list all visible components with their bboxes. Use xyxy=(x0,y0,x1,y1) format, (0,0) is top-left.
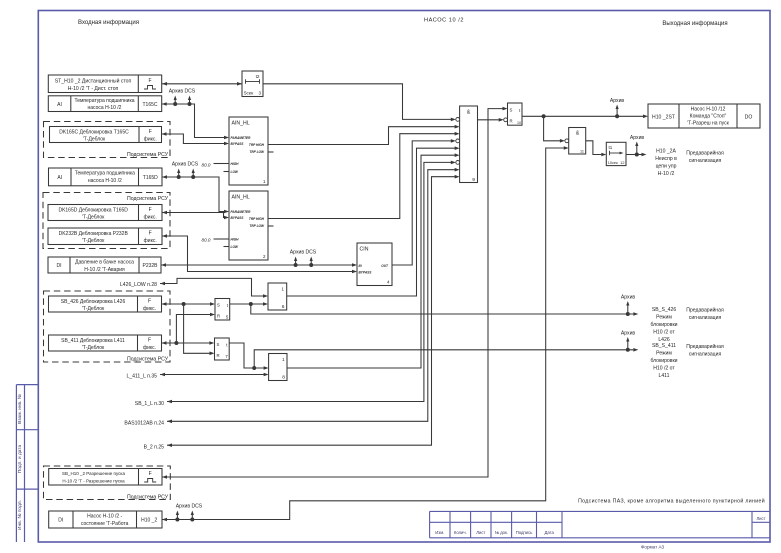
svg-text:80.0: 80.0 xyxy=(202,238,211,243)
svg-text:AIN_HL: AIN_HL xyxy=(232,121,250,127)
svg-text:SB_426 Деблокировка L426: SB_426 Деблокировка L426 xyxy=(61,299,126,305)
svg-text:сигнализация: сигнализация xyxy=(689,315,722,321)
svg-text:T165C: T165C xyxy=(142,102,157,108)
function block CIN 4 xyxy=(357,243,392,286)
output text Предаварийная сигнализация (SB_S_426) xyxy=(686,307,724,322)
svg-text:Неиспр в: Неиспр в xyxy=(655,156,677,162)
svg-text:S: S xyxy=(510,107,513,112)
wire DK165C to AIN_HL1 BYPASS xyxy=(162,132,230,145)
RS trigger block 10 xyxy=(508,103,523,125)
svg-text:F: F xyxy=(148,338,151,344)
svg-text:блокировки: блокировки xyxy=(650,322,677,328)
svg-text:Лист: Лист xyxy=(756,516,765,521)
OR gate block 6 xyxy=(268,283,287,310)
AND gate block 9 xyxy=(460,106,478,183)
svg-text:IN: IN xyxy=(359,264,363,268)
title block labels xyxy=(435,516,765,535)
label Архив DCS (H10_2) xyxy=(176,504,203,510)
svg-text:Команда "Стоп": Команда "Стоп" xyxy=(690,114,727,120)
wire ST_H10_2 output to timer 3 xyxy=(162,82,242,86)
svg-text:Н10 /2 от: Н10 /2 от xyxy=(653,365,675,371)
input block SB_411 (деблокировка L411) xyxy=(49,335,162,351)
svg-text:BAS1012AB п.24: BAS1012AB п.24 xyxy=(124,421,164,427)
svg-text:PARAMETER: PARAMETER xyxy=(231,136,252,140)
svg-text:Режим: Режим xyxy=(656,314,672,320)
svg-text:'Т-Деблок: 'Т-Деблок xyxy=(82,215,105,221)
svg-text:R: R xyxy=(217,353,220,358)
svg-text:DO: DO xyxy=(745,114,753,120)
svg-text:4: 4 xyxy=(387,280,390,285)
node SB_1_L п.30 xyxy=(135,161,460,407)
RS trigger block 5 xyxy=(215,299,230,321)
svg-text:11: 11 xyxy=(580,149,584,153)
svg-text:F: F xyxy=(148,78,151,84)
svg-text:Насос Н-10 /12: Насос Н-10 /12 xyxy=(691,107,726,113)
svg-text:DK165C Деблокировка T165C: DK165C Деблокировка T165C xyxy=(59,129,129,135)
wire T165C to AIN_HL1 PARAMETER xyxy=(162,96,229,140)
svg-text:Режим: Режим xyxy=(656,350,672,356)
svg-text:Подсистема РСУ: Подсистема РСУ xyxy=(127,494,169,500)
svg-text:HIGH: HIGH xyxy=(231,162,240,166)
svg-text:Колич.: Колич. xyxy=(454,530,467,535)
svg-text:1: 1 xyxy=(263,179,266,184)
svg-text:8: 8 xyxy=(282,375,285,381)
svg-text:сигнализация: сигнализация xyxy=(689,158,722,164)
wire SB_411 to RS7 S and RS5 R xyxy=(162,313,216,345)
svg-text:PARAMETER: PARAMETER xyxy=(231,210,252,214)
node L_411_L п.35 xyxy=(126,373,268,380)
label Архив DCS (P232B) xyxy=(290,250,317,256)
svg-text:BYPASS: BYPASS xyxy=(359,271,373,275)
svg-text:TRP HIGH: TRP HIGH xyxy=(249,217,265,221)
wire H10_2 to AND11 input 2 xyxy=(162,146,569,521)
output text SB_S_426 режим блокировки xyxy=(650,307,677,343)
svg-text:F: F xyxy=(149,231,152,237)
header Выходная информация xyxy=(662,21,727,27)
svg-text:BYPASS: BYPASS xyxy=(231,142,245,146)
svg-text:фикс.: фикс. xyxy=(144,137,157,143)
svg-text:SB_Н10 _2 Разрешение пуска: SB_Н10 _2 Разрешение пуска xyxy=(62,471,125,476)
svg-text:SB_S_411: SB_S_411 xyxy=(652,343,676,349)
wire RS7 output to OR8 and SB_S_411 line xyxy=(229,337,638,370)
svg-text:9: 9 xyxy=(472,177,475,183)
svg-text:Архив DCS: Архив DCS xyxy=(176,504,203,510)
svg-text:t: t xyxy=(519,108,521,113)
setpoint 80.0 into AIN_HL2 HIGH xyxy=(202,238,229,243)
dashed box Подсистема РСУ around DK165D and DK232B xyxy=(43,193,170,249)
left strip label Подп. и дата xyxy=(17,445,23,474)
output text H10_2A неисправность xyxy=(655,149,677,178)
svg-text:L411: L411 xyxy=(659,373,670,379)
svg-text:Температура подшипника: Температура подшипника xyxy=(74,98,134,104)
note Подсистема ПАЗ xyxy=(578,498,765,505)
svg-text:Инв. № подл.: Инв. № подл. xyxy=(17,500,23,530)
svg-text:Н-10 /2 'Т - Дист. стоп: Н-10 /2 'Т - Дист. стоп xyxy=(68,86,119,92)
svg-text:&: & xyxy=(467,110,471,116)
svg-text:SB_1_L п.30: SB_1_L п.30 xyxy=(135,401,164,407)
svg-text:BYPASS: BYPASS xyxy=(231,216,245,220)
svg-text:Архив: Архив xyxy=(621,295,636,301)
wire RS5 output to OR6 and SB_S_426 line xyxy=(230,301,639,316)
svg-text:F: F xyxy=(149,129,152,135)
input block DK165C (деблокировка T165C) xyxy=(50,127,162,143)
svg-text:Подсистема ПАЗ, кроме алгоритм: Подсистема ПАЗ, кроме алгоритма выделенн… xyxy=(578,498,765,505)
svg-text:LOW: LOW xyxy=(231,245,239,249)
svg-text:DI: DI xyxy=(57,263,62,269)
wire T165D to AIN_HL2 PARAMETER xyxy=(162,169,229,214)
input block SB_426 (деблокировка L426) xyxy=(49,296,162,312)
wire RS10 branch to AND11 input 1 xyxy=(544,116,569,142)
input block DI P232B (давление в бачке) xyxy=(48,257,161,273)
svg-text:Архив: Архив xyxy=(621,331,636,337)
svg-text:Изм.: Изм. xyxy=(435,530,444,535)
input block DI H10_2 (насос состояние работа) xyxy=(49,511,162,528)
input block DK232B (деблокировка P232B) xyxy=(48,228,162,245)
wire AND9 output to RS10 R xyxy=(478,118,508,122)
svg-text:P232B: P232B xyxy=(142,263,158,269)
svg-text:Подсистема РСУ: Подсистема РСУ xyxy=(127,357,169,363)
svg-text:Подсистема РСУ: Подсистема РСУ xyxy=(127,196,169,202)
svg-text:B_2 п.25: B_2 п.25 xyxy=(144,445,164,451)
label Архив DCS (T165C) xyxy=(169,89,196,95)
svg-text:S: S xyxy=(217,303,220,308)
svg-text:TRP HIGH: TRP HIGH xyxy=(249,143,265,147)
svg-text:Подп. и дата: Подп. и дата xyxy=(17,445,23,474)
wire SB_426 to RS5 S and RS7 R xyxy=(162,302,216,355)
svg-text:t1: t1 xyxy=(609,145,613,150)
svg-text:TRP LOW: TRP LOW xyxy=(249,150,265,154)
input block SB_H10_2 (разрешение пуска) xyxy=(49,469,162,486)
input block AI T165C (температура подшипника) xyxy=(48,96,161,112)
svg-text:Н10 _2А: Н10 _2А xyxy=(656,149,676,155)
wire RS10 output to H10_2ST xyxy=(522,105,648,119)
left strip label Взам. инв. № xyxy=(17,394,23,424)
svg-text:сигнализация: сигнализация xyxy=(689,351,722,357)
wire P232B to CIN IN xyxy=(161,257,357,268)
timer block 12 (t1 10сек) xyxy=(606,142,626,165)
svg-text:состояние 'Т-Работа: состояние 'Т-Работа xyxy=(81,521,129,527)
svg-text:AIN_HL: AIN_HL xyxy=(232,195,250,201)
function block AIN_HL 1 xyxy=(229,117,268,185)
svg-text:Подсистема РСУ: Подсистема РСУ xyxy=(127,152,169,158)
left frame column strip xyxy=(16,385,38,542)
title block table xyxy=(430,511,770,537)
svg-text:Предаварийная: Предаварийная xyxy=(686,150,724,157)
label Архив (SB_S_411) xyxy=(621,331,636,337)
svg-text:Входная информация: Входная информация xyxy=(78,20,139,26)
svg-text:12: 12 xyxy=(620,161,624,165)
svg-text:AI: AI xyxy=(57,102,62,108)
svg-text:7: 7 xyxy=(225,354,228,359)
svg-text:2: 2 xyxy=(263,254,266,259)
svg-text:Подпись: Подпись xyxy=(516,530,533,535)
svg-text:5сек: 5сек xyxy=(244,91,253,96)
OR gate block 8 xyxy=(269,354,287,381)
svg-text:Архив DCS: Архив DCS xyxy=(290,250,317,256)
dashed box Подсистема РСУ around SB_H10_2 xyxy=(44,466,171,500)
svg-text:S: S xyxy=(217,342,220,347)
svg-text:фикс.: фикс. xyxy=(144,238,157,244)
svg-text:'Т-Деблок: 'Т-Деблок xyxy=(83,137,106,143)
dashed box Подсистема РСУ around SB_426 and SB_411 xyxy=(44,291,171,363)
output text SB_S_411 режим блокировки xyxy=(650,343,677,379)
svg-text:насоса Н-10 /2: насоса Н-10 /2 xyxy=(88,178,122,184)
svg-text:OUT: OUT xyxy=(381,264,389,268)
input block DK165D (деблокировка T165D) xyxy=(48,205,162,221)
svg-text:Н10 _2ST: Н10 _2ST xyxy=(652,114,675,120)
svg-text:SB_S_426: SB_S_426 xyxy=(652,307,677,313)
output block H10_2ST (команда стоп) xyxy=(648,104,760,128)
svg-text:Формат А3: Формат А3 xyxy=(641,545,665,550)
svg-text:10: 10 xyxy=(517,121,521,125)
svg-text:Давление в бачке насоса: Давление в бачке насоса xyxy=(75,259,134,265)
svg-text:'Т-Деблок: 'Т-Деблок xyxy=(82,238,105,244)
wire timer 3 output to AND9 input 1 xyxy=(263,84,460,122)
svg-text:блокировки: блокировки xyxy=(650,358,677,364)
svg-text:DK165D Деблокировка T165D: DK165D Деблокировка T165D xyxy=(58,207,128,213)
svg-text:5: 5 xyxy=(226,314,229,319)
svg-text:&: & xyxy=(576,131,580,137)
svg-text:Предаварийная: Предаварийная xyxy=(686,343,724,350)
svg-text:1: 1 xyxy=(282,357,285,362)
svg-text:Дата: Дата xyxy=(545,530,555,535)
svg-text:AI: AI xyxy=(57,175,62,181)
svg-text:насоса Н-10 /2: насоса Н-10 /2 xyxy=(88,105,122,111)
svg-text:Архив DCS: Архив DCS xyxy=(172,162,199,168)
svg-text:t: t xyxy=(226,343,228,348)
svg-text:6: 6 xyxy=(282,304,285,310)
header НАСОС 10 /2 xyxy=(424,18,464,24)
svg-text:Н10 _2: Н10 _2 xyxy=(141,518,157,524)
svg-text:'Т-Деблок: 'Т-Деблок xyxy=(82,306,105,312)
svg-text:F: F xyxy=(148,299,151,305)
svg-text:LOW: LOW xyxy=(231,170,239,174)
svg-text:фикс.: фикс. xyxy=(143,306,156,312)
svg-text:Н-10 /2: Н-10 /2 xyxy=(658,171,675,177)
wire AIN_HL1 TRP HIGH to AND9 input 2 xyxy=(268,125,460,145)
label Архив (H10_2A) xyxy=(630,135,645,141)
output text Предаварийная сигнализация (H10_2A) xyxy=(686,150,724,165)
wire DK165D to AIN_HL2 BYPASS xyxy=(162,211,229,220)
svg-text:R: R xyxy=(217,313,220,318)
input block AI T165D (температура подшипника) xyxy=(49,168,163,186)
svg-text:CIN: CIN xyxy=(360,247,369,253)
wire SB_H10_2 to RS10 S xyxy=(162,107,508,479)
svg-text:№ док.: № док. xyxy=(495,530,508,535)
stub AIN_HL1 TRP LOW output xyxy=(268,151,274,153)
svg-text:Архив DCS: Архив DCS xyxy=(169,89,196,95)
svg-text:НАСОС 10 /2: НАСОС 10 /2 xyxy=(424,18,464,24)
wire OR6 output to AND9 input 5 xyxy=(287,146,460,296)
setpoint 80.0 into AIN_HL1 HIGH xyxy=(202,162,229,167)
svg-text:Взам. инв. №: Взам. инв. № xyxy=(17,394,23,424)
svg-text:'Т-Разреш на пуск: 'Т-Разреш на пуск xyxy=(687,121,729,127)
svg-text:F: F xyxy=(149,207,152,213)
label Архив (SB_S_426) xyxy=(621,295,636,301)
svg-text:Насос Н-10 /2 -: Насос Н-10 /2 - xyxy=(87,513,122,519)
svg-text:'Т-Деблок: 'Т-Деблок xyxy=(82,345,105,351)
svg-text:Н-10 /2 'Т-Авария: Н-10 /2 'Т-Авария xyxy=(84,267,125,273)
svg-text:Н10 /2 от: Н10 /2 от xyxy=(653,329,675,335)
output text Предаварийная сигнализация (SB_S_411) xyxy=(686,343,724,358)
input block ST_H10_2 (дистанционный стоп) xyxy=(48,75,161,93)
svg-text:T165D: T165D xyxy=(143,175,158,181)
svg-text:фикс.: фикс. xyxy=(143,345,156,351)
svg-text:Предаварийная: Предаварийная xyxy=(686,307,724,314)
svg-text:Архив: Архив xyxy=(630,135,645,141)
RS trigger block 7 xyxy=(215,338,230,360)
svg-text:t2: t2 xyxy=(256,74,260,79)
stub AIN_HL2 TRP LOW output xyxy=(268,225,274,227)
wire AND11 output to timer 12 xyxy=(586,141,607,157)
function block AIN_HL 2 xyxy=(229,191,268,260)
svg-text:80.0: 80.0 xyxy=(202,162,211,167)
wire CIN OUT to AND9 input 4 xyxy=(392,139,460,265)
label Архив DCS (T165D) xyxy=(172,162,199,168)
label Архив (H10_2ST) xyxy=(610,98,625,104)
stub AIN_HL2 LOW input xyxy=(224,246,230,248)
svg-text:1: 1 xyxy=(282,287,285,292)
left strip label Инв. № подл. xyxy=(17,500,23,530)
svg-text:ST_Н10 _2 Дистанционный стоп: ST_Н10 _2 Дистанционный стоп xyxy=(55,77,132,84)
wire OR8 output to AND9 input 6 xyxy=(287,153,460,368)
label Формат А3 xyxy=(641,545,665,550)
svg-text:Выходная информация: Выходная информация xyxy=(662,21,727,27)
node B_2 п.25 xyxy=(144,175,460,451)
svg-text:F: F xyxy=(149,471,152,477)
svg-text:L426_LOW п.28: L426_LOW п.28 xyxy=(120,282,157,288)
svg-text:DK232B Деблокировка P232B: DK232B Деблокировка P232B xyxy=(59,231,129,237)
svg-text:цепи упр: цепи упр xyxy=(656,164,677,170)
dashed box Подсистема РСУ around DK165C xyxy=(44,122,171,159)
wire AIN_HL2 TRP HIGH to AND9 input 3 xyxy=(268,132,460,219)
node BAS1012AB п.24 xyxy=(124,168,459,427)
svg-text:10сек: 10сек xyxy=(608,161,618,165)
svg-text:TRP LOW: TRP LOW xyxy=(249,224,265,228)
timer block 3 (t2 5сек) xyxy=(242,71,263,97)
svg-text:SB_411 Деблокировка L411: SB_411 Деблокировка L411 xyxy=(61,338,125,344)
svg-text:3: 3 xyxy=(258,91,261,96)
stub AIN_HL1 LOW input xyxy=(224,171,230,173)
svg-text:Архив: Архив xyxy=(610,98,625,104)
wire timer 12 to H10_2A output xyxy=(626,142,647,157)
svg-text:L_411_L п.35: L_411_L п.35 xyxy=(126,373,157,379)
node L426_LOW п.28 xyxy=(120,278,268,297)
svg-text:HIGH: HIGH xyxy=(231,238,240,242)
svg-text:R: R xyxy=(510,119,513,124)
svg-text:Н-10 /2 'Т - Разрешение пуска: Н-10 /2 'Т - Разрешение пуска xyxy=(62,479,125,484)
svg-text:DI: DI xyxy=(58,518,63,524)
wire DK232B to CIN BYPASS xyxy=(162,234,357,273)
svg-text:фикс.: фикс. xyxy=(144,215,157,221)
svg-text:Лист: Лист xyxy=(476,530,485,535)
svg-text:t: t xyxy=(227,303,229,308)
AND gate block 11 xyxy=(569,128,586,155)
svg-text:Температура подшипника: Температура подшипника xyxy=(75,170,135,176)
header Входная информация xyxy=(78,20,139,26)
